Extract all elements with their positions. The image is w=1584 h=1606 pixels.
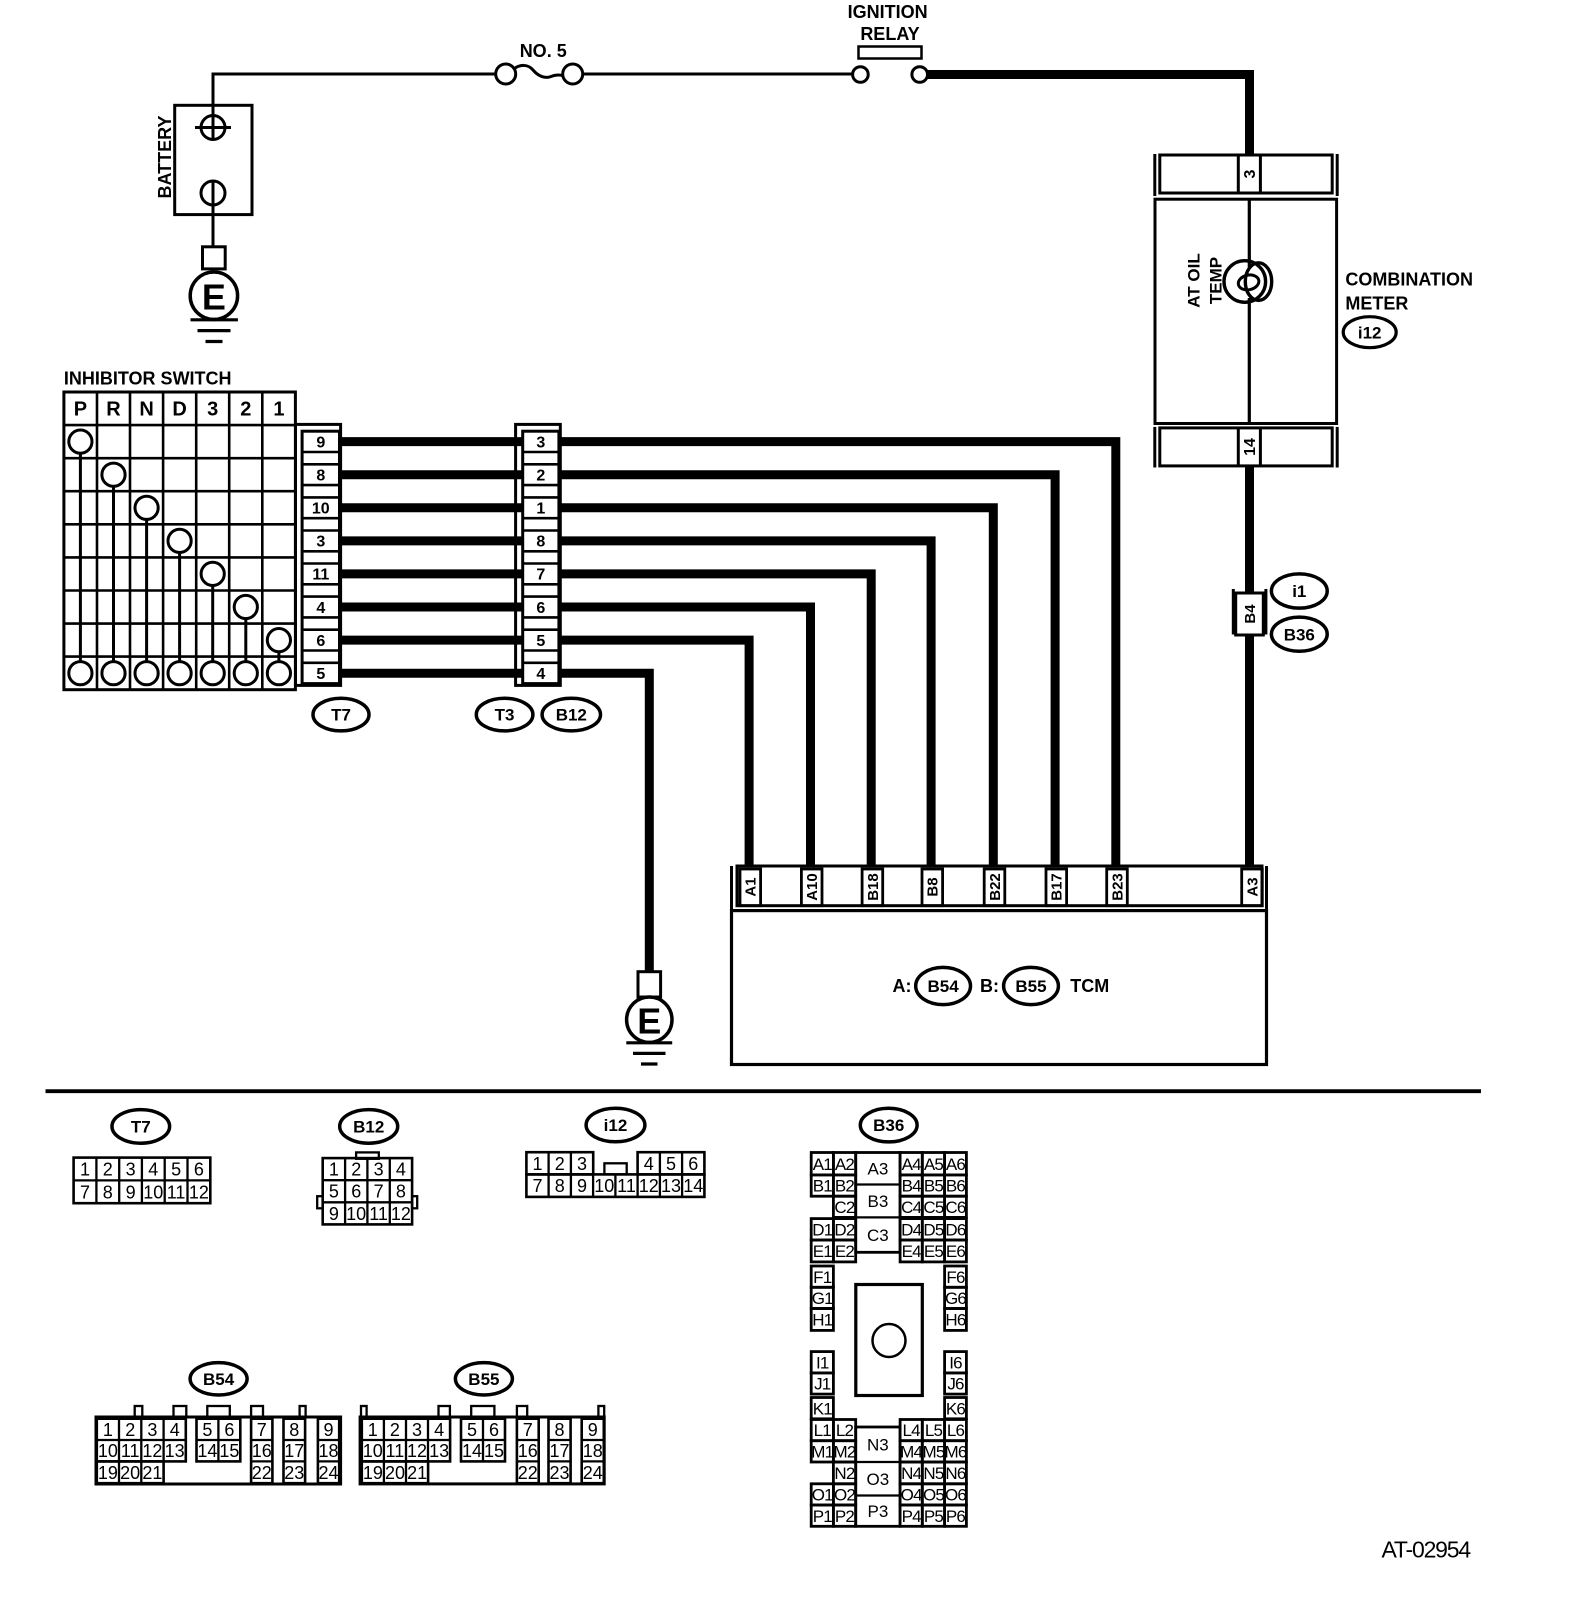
svg-text:11: 11 [386,1441,405,1461]
svg-text:18: 18 [583,1441,603,1461]
B12 pinout oval [340,1110,398,1144]
B54 pinout connector [96,1363,341,1484]
svg-text:1: 1 [103,1420,113,1440]
svg-text:L4: L4 [903,1421,921,1440]
svg-text:11: 11 [167,1182,186,1202]
svg-text:O6: O6 [945,1486,966,1505]
svg-text:2: 2 [103,1160,113,1180]
svg-text:3: 3 [577,1154,587,1174]
svg-text:N2: N2 [834,1464,854,1483]
svg-text:2: 2 [125,1420,135,1440]
battery [155,74,252,247]
svg-text:9: 9 [329,1204,339,1224]
svg-text:3: 3 [374,1160,384,1180]
svg-text:P5: P5 [924,1507,944,1526]
svg-text:3: 3 [316,534,325,551]
svg-text:K1: K1 [813,1399,833,1418]
svg-text:1: 1 [273,399,284,421]
i12 oval label [1343,317,1396,348]
svg-text:A6: A6 [946,1155,966,1174]
TCM connector strip [732,866,1267,911]
svg-text:B6: B6 [946,1177,966,1196]
svg-text:1: 1 [536,501,545,518]
svg-text:13: 13 [429,1441,449,1461]
svg-text:3: 3 [147,1420,157,1440]
svg-text:C6: C6 [945,1198,965,1217]
ignition relay [848,2,928,82]
svg-text:20: 20 [385,1463,405,1483]
svg-text:5: 5 [536,633,545,650]
svg-text:I1: I1 [816,1353,829,1372]
svg-text:E1: E1 [813,1242,833,1261]
svg-text:6: 6 [351,1182,361,1202]
svg-text:6: 6 [194,1160,204,1180]
svg-text:5: 5 [467,1420,477,1440]
svg-text:3: 3 [536,434,545,451]
svg-text:8: 8 [396,1182,406,1202]
svg-text:A:: A: [893,976,912,996]
svg-text:L6: L6 [947,1421,965,1440]
svg-text:N3: N3 [867,1436,889,1455]
svg-text:6: 6 [316,633,325,650]
i1 oval label [1271,574,1327,608]
svg-text:METER: METER [1345,294,1408,314]
svg-text:2: 2 [240,399,251,421]
svg-text:12: 12 [639,1176,659,1196]
svg-text:5: 5 [171,1160,181,1180]
svg-text:A2: A2 [835,1155,855,1174]
svg-text:J1: J1 [814,1375,831,1394]
B36 pinout connector [811,1153,967,1527]
svg-text:NO. 5: NO. 5 [520,41,567,61]
svg-text:A1: A1 [813,1155,833,1174]
svg-text:B4: B4 [1242,604,1259,624]
section divider line [46,1089,1482,1093]
T7 pinout oval [112,1110,170,1144]
inhibitor switch [64,369,296,690]
svg-text:B1: B1 [813,1177,833,1196]
svg-text:7: 7 [80,1182,90,1202]
svg-text:5: 5 [666,1154,676,1174]
svg-text:16: 16 [252,1441,272,1461]
svg-text:11: 11 [617,1176,636,1196]
svg-text:3: 3 [1242,169,1259,178]
svg-text:B8: B8 [925,877,942,896]
B36 pinout oval [860,1108,917,1142]
svg-text:12: 12 [407,1441,427,1461]
svg-text:L1: L1 [814,1421,832,1440]
svg-text:B:: B: [980,976,999,996]
B55 pinout connector [360,1363,604,1484]
svg-text:13: 13 [165,1441,185,1461]
svg-text:9: 9 [588,1420,598,1440]
svg-text:8: 8 [103,1182,113,1202]
svg-text:E5: E5 [924,1242,944,1261]
svg-text:B4: B4 [902,1177,922,1196]
svg-text:14: 14 [462,1441,482,1461]
svg-text:D4: D4 [901,1220,921,1239]
svg-text:T7: T7 [131,1118,151,1137]
AT OIL TEMP lamp [1185,253,1272,307]
svg-text:17: 17 [284,1441,304,1461]
svg-text:6: 6 [224,1420,234,1440]
svg-text:7: 7 [532,1176,542,1196]
connector strip T7 pins [296,424,341,685]
connector strip T3/B12 pins [516,424,561,685]
svg-text:11: 11 [369,1204,388,1224]
svg-text:12: 12 [189,1182,209,1202]
svg-text:24: 24 [318,1463,338,1483]
svg-text:B2: B2 [835,1177,855,1196]
svg-text:F6: F6 [946,1268,965,1287]
B12 pinout connector [317,1152,417,1224]
svg-text:B18: B18 [865,873,882,901]
svg-text:14: 14 [197,1441,217,1461]
svg-text:15: 15 [484,1441,504,1461]
svg-text:M2: M2 [833,1443,855,1462]
svg-text:C2: C2 [834,1198,854,1217]
svg-text:2: 2 [536,468,545,485]
svg-text:23: 23 [549,1463,569,1483]
svg-text:M6: M6 [944,1443,966,1462]
svg-text:10: 10 [143,1182,163,1202]
svg-text:P1: P1 [813,1507,833,1526]
svg-text:22: 22 [252,1463,272,1483]
svg-text:8: 8 [536,534,545,551]
svg-text:C3: C3 [867,1226,889,1245]
svg-text:COMBINATION: COMBINATION [1345,270,1473,290]
svg-text:17: 17 [549,1441,569,1461]
svg-text:12: 12 [142,1441,162,1461]
svg-text:2: 2 [351,1160,361,1180]
svg-text:B54: B54 [203,1370,235,1389]
B55 oval label (TCM) [1004,967,1059,1004]
svg-text:AT-02954: AT-02954 [1382,1537,1472,1563]
svg-text:TCM: TCM [1070,976,1109,996]
svg-text:4: 4 [316,600,325,617]
svg-text:C5: C5 [923,1198,943,1217]
svg-text:13: 13 [661,1176,681,1196]
svg-text:11: 11 [312,567,329,584]
svg-text:E6: E6 [946,1242,966,1261]
svg-text:9: 9 [126,1182,136,1202]
svg-text:B22: B22 [987,873,1004,901]
svg-text:P4: P4 [902,1507,922,1526]
svg-text:E4: E4 [902,1242,922,1261]
T7 pinout connector [74,1158,211,1204]
svg-text:A10: A10 [804,873,821,901]
svg-text:B36: B36 [873,1116,904,1135]
svg-text:7: 7 [374,1182,384,1202]
fuse NO. 5 [496,41,583,84]
svg-text:7: 7 [536,567,545,584]
svg-text:10: 10 [98,1441,118,1461]
svg-text:P: P [74,399,87,421]
svg-text:A4: A4 [902,1155,922,1174]
svg-text:H1: H1 [812,1311,832,1330]
wire T3 pin 4 to ground [559,673,649,972]
svg-text:2: 2 [555,1154,565,1174]
svg-text:R: R [106,399,121,421]
svg-text:A3: A3 [868,1160,889,1179]
svg-text:O1: O1 [812,1486,833,1505]
svg-text:7: 7 [523,1420,533,1440]
ground (battery) E [190,247,238,342]
svg-text:4: 4 [396,1160,406,1180]
svg-text:3: 3 [412,1420,422,1440]
svg-text:19: 19 [98,1463,118,1483]
ground (TCM side) E [626,972,672,1064]
svg-text:D5: D5 [923,1220,943,1239]
svg-text:H6: H6 [945,1311,965,1330]
svg-text:I6: I6 [949,1353,962,1372]
svg-text:A1: A1 [743,877,760,896]
svg-text:9: 9 [316,434,325,451]
B12 oval label [542,698,600,731]
svg-text:10: 10 [594,1176,614,1196]
T3 oval label [476,698,533,731]
svg-text:5: 5 [316,666,325,683]
svg-text:RELAY: RELAY [860,24,919,44]
svg-text:B36: B36 [1284,625,1315,644]
svg-text:6: 6 [489,1420,499,1440]
combination meter [1155,154,1337,424]
svg-text:O4: O4 [901,1486,922,1505]
svg-text:P3: P3 [868,1502,889,1521]
svg-text:4: 4 [148,1160,158,1180]
svg-text:6: 6 [688,1154,698,1174]
svg-text:9: 9 [577,1176,587,1196]
i12 pinout connector [526,1152,704,1197]
svg-text:24: 24 [583,1463,603,1483]
svg-text:O3: O3 [867,1470,890,1489]
svg-text:D1: D1 [812,1220,832,1239]
svg-text:4: 4 [170,1420,180,1440]
svg-text:B23: B23 [1109,873,1126,901]
svg-text:18: 18 [318,1441,338,1461]
svg-text:7: 7 [257,1420,267,1440]
svg-text:A5: A5 [924,1155,944,1174]
combination meter bottom connector pin 14 [1155,427,1337,468]
svg-text:E2: E2 [835,1242,855,1261]
svg-text:i12: i12 [1358,323,1382,342]
wires T3/B12 to TCM [559,442,1116,867]
svg-text:G6: G6 [945,1289,966,1308]
svg-text:B54: B54 [928,977,960,996]
svg-text:B12: B12 [556,706,587,725]
wire battery to fuse [212,73,497,76]
svg-text:15: 15 [219,1441,239,1461]
svg-text:J6: J6 [947,1375,964,1394]
svg-text:4: 4 [644,1154,654,1174]
svg-text:14: 14 [1242,438,1259,456]
svg-text:5: 5 [202,1420,212,1440]
svg-text:D6: D6 [945,1220,965,1239]
svg-text:10: 10 [312,501,330,518]
svg-text:M4: M4 [900,1443,922,1462]
svg-text:1: 1 [532,1154,542,1174]
svg-text:10: 10 [346,1204,366,1224]
svg-text:3: 3 [207,399,218,421]
svg-text:B55: B55 [468,1370,499,1389]
svg-text:8: 8 [316,468,325,485]
wire B4 to TCM A3 [1245,635,1254,867]
svg-text:D: D [172,399,186,421]
svg-text:4: 4 [536,666,545,683]
B54 oval label (TCM) [916,967,971,1004]
svg-text:B5: B5 [924,1177,944,1196]
svg-text:23: 23 [284,1463,304,1483]
svg-text:M5: M5 [922,1443,944,1462]
svg-text:B17: B17 [1049,873,1066,901]
svg-text:O5: O5 [923,1486,944,1505]
svg-text:N5: N5 [923,1464,943,1483]
svg-text:11: 11 [121,1441,140,1461]
wire ignition relay to combination meter [928,75,1250,157]
svg-text:6: 6 [536,600,545,617]
svg-text:12: 12 [391,1204,411,1224]
connector B4 [1233,589,1266,635]
svg-text:A3: A3 [1244,877,1261,896]
svg-text:M1: M1 [811,1443,833,1462]
wire meter pin 14 to connector B4 [1245,466,1254,594]
svg-text:20: 20 [120,1463,140,1483]
B36 oval label (connector B4) [1271,617,1327,651]
svg-text:21: 21 [407,1463,427,1483]
svg-text:IGNITION: IGNITION [848,2,928,22]
svg-text:4: 4 [434,1420,444,1440]
svg-text:G1: G1 [812,1289,833,1308]
svg-text:8: 8 [554,1420,564,1440]
svg-text:P2: P2 [835,1507,855,1526]
svg-text:8: 8 [555,1176,565,1196]
svg-text:1: 1 [368,1420,378,1440]
svg-text:5: 5 [329,1182,339,1202]
svg-text:AT OIL: AT OIL [1185,253,1204,307]
svg-text:10: 10 [363,1441,383,1461]
svg-text:N: N [139,399,153,421]
svg-text:2: 2 [390,1420,400,1440]
svg-text:O2: O2 [834,1486,855,1505]
svg-text:3: 3 [126,1160,136,1180]
svg-text:19: 19 [363,1463,383,1483]
svg-text:T7: T7 [331,706,351,725]
svg-text:B55: B55 [1015,977,1046,996]
combination meter label [1345,270,1473,314]
svg-text:1: 1 [80,1160,90,1180]
svg-text:8: 8 [289,1420,299,1440]
svg-text:F1: F1 [813,1268,832,1287]
svg-text:B3: B3 [868,1192,889,1211]
inhibitor switch contacts [69,430,291,685]
svg-text:B12: B12 [353,1118,384,1137]
svg-text:D2: D2 [834,1220,854,1239]
svg-text:K6: K6 [946,1399,966,1418]
svg-text:C4: C4 [901,1198,921,1217]
svg-text:21: 21 [142,1463,162,1483]
svg-text:L2: L2 [836,1421,854,1440]
svg-text:i12: i12 [604,1116,628,1135]
TCM box [732,911,1267,1065]
svg-text:14: 14 [683,1176,703,1196]
T7 oval label [313,698,369,731]
svg-text:TEMP: TEMP [1207,257,1226,304]
svg-text:16: 16 [518,1441,538,1461]
svg-text:N4: N4 [901,1464,921,1483]
svg-text:22: 22 [518,1463,538,1483]
wire fuse to ignition relay [583,73,853,76]
svg-text:BATTERY: BATTERY [155,116,175,199]
i12 pinout oval [586,1108,645,1142]
svg-text:L5: L5 [925,1421,943,1440]
svg-text:i1: i1 [1292,582,1306,601]
svg-text:1: 1 [329,1160,339,1180]
svg-text:E: E [637,1001,661,1042]
svg-text:T3: T3 [495,706,515,725]
svg-text:P6: P6 [946,1507,966,1526]
svg-text:N6: N6 [945,1464,965,1483]
wires T7 to T3 [340,442,523,674]
svg-text:E: E [202,277,226,318]
svg-text:INHIBITOR SWITCH: INHIBITOR SWITCH [64,369,232,389]
svg-text:9: 9 [323,1420,333,1440]
